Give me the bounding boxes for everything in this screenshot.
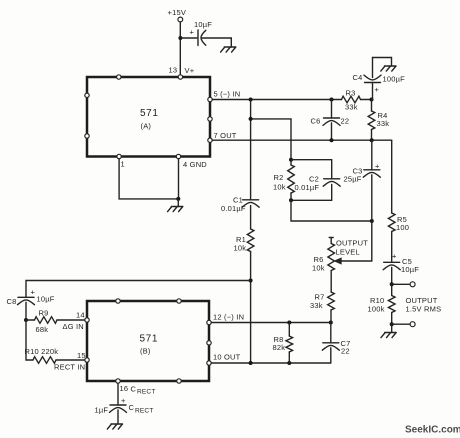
- svg-text:V+: V+: [185, 66, 195, 75]
- resistor R10 220k: [25, 347, 85, 363]
- svg-text:C: C: [131, 385, 137, 394]
- wire to output terminal 2: [392, 323, 410, 325]
- wire +15V to pin 13 V+: [179, 22, 181, 77]
- resistor R3 33k: [342, 89, 372, 112]
- pin 15 label: [54, 351, 86, 372]
- node junction R7 bottom / C7 top: [329, 321, 333, 325]
- svg-text:10µF: 10µF: [194, 20, 212, 29]
- svg-text:10µF: 10µF: [401, 265, 419, 274]
- node junction IN line at C1 branch: [249, 98, 253, 102]
- svg-text:OUTPUT: OUTPUT: [336, 239, 368, 248]
- node junction R2 top: [289, 158, 293, 162]
- ground G4 below R10: [381, 333, 396, 338]
- pin bubble box B top 1: [116, 299, 120, 303]
- pin bubble box B pin 15: [85, 358, 89, 362]
- potentiometer R6 10k: [312, 238, 335, 273]
- pin bubble box A pin 7: [208, 138, 212, 142]
- svg-text:571: 571: [140, 334, 159, 345]
- wire R2C2 bottom rail: [291, 185, 332, 201]
- svg-text:10 OUT: 10 OUT: [213, 353, 241, 362]
- capacitor C8 10uF: [7, 288, 55, 321]
- svg-text:C: C: [129, 403, 135, 412]
- resistor R2 10k: [273, 160, 294, 201]
- svg-text:13: 13: [169, 66, 178, 75]
- node junction R1 line with feedback line: [249, 279, 253, 283]
- resistor R4 33k: [368, 100, 389, 141]
- svg-text:0.01µF: 0.01µF: [221, 204, 246, 213]
- OUTPUT LEVEL label: [336, 239, 369, 257]
- wire R2 bottom to C3 bottom rail: [291, 200, 372, 221]
- svg-text:C4: C4: [353, 73, 363, 82]
- resistor R9 68k: [26, 309, 85, 335]
- wire pin 10 line: [211, 362, 331, 364]
- svg-text:RECT IN: RECT IN: [54, 363, 85, 372]
- resistor R8 82k: [273, 323, 293, 364]
- svg-text:R3: R3: [346, 89, 356, 98]
- pin bubble box A left 2: [85, 134, 89, 138]
- wire R5 bottom to C5: [391, 232, 393, 263]
- resistor R5 100: [388, 213, 409, 232]
- wire (-)IN line from pin 5: [212, 99, 341, 101]
- wiper arrow of R6: [335, 258, 341, 263]
- capacitor C3 25uF: [344, 140, 381, 221]
- pin bubble box A pin 5: [208, 97, 212, 101]
- wire bypass capacitor to ground: [202, 38, 231, 47]
- svg-text:22: 22: [341, 117, 350, 126]
- op-amp U2 571 (B) body: [87, 301, 209, 381]
- svg-text:33k: 33k: [345, 103, 358, 112]
- node junction IN-R2 branch: [249, 117, 253, 121]
- capacitor 10uF bypass: [190, 20, 213, 46]
- svg-text:R9: R9: [39, 309, 49, 318]
- node junction R4 bottom on OUT line: [370, 138, 374, 142]
- wire junction to bypass capacitor: [180, 37, 197, 39]
- ground G2 above C4: [381, 66, 396, 71]
- svg-text:16: 16: [120, 384, 129, 393]
- capacitor C1 0.01uF: [221, 196, 259, 214]
- svg-text:10k: 10k: [234, 244, 247, 253]
- wire OUT line from pin 7: [212, 139, 392, 141]
- node junction R8 bottom: [287, 361, 291, 365]
- svg-text:12 (−) IN: 12 (−) IN: [213, 313, 244, 322]
- pin bubble box B right mid: [207, 341, 211, 345]
- svg-text:(B): (B): [140, 347, 151, 356]
- wire feedback line C8 to R1 chain: [26, 281, 251, 298]
- node +15V terminal: [168, 8, 187, 22]
- wire pin 12 line: [211, 322, 331, 324]
- pin 16 label: [120, 384, 156, 396]
- svg-text:R10 220k: R10 220k: [25, 347, 59, 356]
- wire C4 top to ground: [373, 58, 392, 67]
- svg-text:RECT: RECT: [137, 389, 156, 396]
- wire wiper to C3 bottom rail: [340, 221, 372, 261]
- node junction C5 bottom output: [390, 282, 394, 286]
- wire pin 1 loop to ground: [119, 159, 178, 199]
- pin bubble box A left 1: [85, 93, 89, 97]
- node output terminal 2: [410, 322, 415, 327]
- svg-text:1µF: 1µF: [95, 406, 109, 415]
- svg-text:33k: 33k: [377, 119, 390, 128]
- node junction R2 bottom: [289, 198, 293, 202]
- svg-text:+15V: +15V: [168, 8, 187, 17]
- node output terminal 1: [410, 282, 415, 287]
- node junction at V+ rail: [178, 36, 182, 40]
- svg-text:10k: 10k: [312, 264, 325, 273]
- svg-text:RECT: RECT: [135, 408, 154, 415]
- wire OUT line right branch down to R5: [391, 140, 393, 213]
- svg-text:C8: C8: [7, 297, 17, 306]
- svg-text:+: +: [392, 252, 397, 261]
- svg-text:571: 571: [140, 108, 159, 119]
- svg-text:ΔG IN: ΔG IN: [63, 322, 84, 331]
- svg-text:100µF: 100µF: [383, 75, 406, 84]
- pin bubble box A pin 13: [178, 75, 182, 79]
- wire R6 bottom to R7: [330, 271, 332, 293]
- svg-text:14: 14: [76, 311, 85, 320]
- svg-text:25µF: 25µF: [344, 175, 362, 184]
- pin bubble box B pin 12: [207, 320, 211, 324]
- svg-text:+: +: [375, 162, 380, 171]
- pin bubble box B pin 10: [207, 361, 211, 365]
- pin bubble box A pin 4: [176, 154, 180, 158]
- pin bubble box A pin 1: [117, 154, 121, 158]
- node junction C6 bottom on OUT line: [330, 138, 334, 142]
- svg-text:0.01µF: 0.01µF: [295, 183, 320, 192]
- wire pin 4 down: [178, 159, 180, 199]
- wire junction to ground G5: [177, 199, 179, 207]
- OUTPUT 15V RMS label: [406, 296, 442, 314]
- resistor R7 33k: [310, 292, 334, 323]
- svg-text:+: +: [190, 28, 195, 37]
- node junction R3-C4-R4: [370, 98, 374, 102]
- resistor R1 10k: [234, 229, 254, 253]
- svg-text:1.5V RMS: 1.5V RMS: [406, 305, 442, 314]
- svg-text:+: +: [375, 85, 380, 94]
- capacitor C4 100uF: [353, 58, 406, 100]
- pin bubble box B bottom 2: [177, 379, 181, 383]
- ground G3 below CRECT: [107, 424, 122, 429]
- pin bubble box A right mid: [208, 117, 212, 121]
- wire C8 node down to R10: [26, 320, 33, 360]
- svg-text:68k: 68k: [36, 325, 49, 334]
- svg-text:100: 100: [396, 223, 409, 232]
- node junction R10 bottom: [390, 322, 394, 326]
- wire to output terminal 1: [392, 283, 410, 285]
- capacitor C6 22: [311, 100, 350, 141]
- wire pin 16 to CRECT: [117, 383, 119, 405]
- node junction R8 top: [287, 321, 291, 325]
- svg-text:+: +: [31, 288, 36, 297]
- pin 14 label: [63, 311, 85, 332]
- wire C1-R1 vertical chain: [250, 100, 252, 364]
- svg-text:15: 15: [77, 351, 86, 360]
- svg-text:LEVEL: LEVEL: [336, 248, 360, 257]
- svg-text:33k: 33k: [310, 301, 323, 310]
- ground G1 top: [221, 47, 236, 52]
- node junction under pin 4: [176, 197, 180, 201]
- svg-text:10k: 10k: [273, 183, 286, 192]
- svg-text:7 OUT: 7 OUT: [214, 131, 237, 140]
- capacitor C2 0.01uF: [295, 175, 341, 193]
- pin bubble box B top 2: [177, 299, 181, 303]
- svg-text:82k: 82k: [273, 343, 286, 352]
- svg-text:5 (−) IN: 5 (−) IN: [214, 90, 241, 99]
- svg-text:+: +: [121, 396, 126, 405]
- capacitor C7 22: [322, 323, 350, 364]
- svg-text:100k: 100k: [368, 305, 385, 314]
- wire IN branch to R2 top: [251, 119, 291, 160]
- node junction R1 chain to 10 OUT: [249, 361, 253, 365]
- svg-text:C6: C6: [311, 117, 321, 126]
- svg-text:R2: R2: [274, 173, 284, 182]
- resistor R10 100k: [368, 284, 396, 324]
- svg-text:1: 1: [121, 160, 125, 169]
- wire R10 bottom to ground: [391, 324, 393, 332]
- capacitor CRECT 1uF: [95, 396, 154, 424]
- svg-text:SeekIC.com: SeekIC.com: [405, 425, 460, 436]
- pin 13 label: [169, 66, 195, 76]
- ground G5 below box A: [168, 207, 183, 212]
- op-amp U1 571 (A) body: [87, 77, 210, 157]
- node junction C3 bottom / wiper rail: [370, 219, 374, 223]
- wire R2C2 top rail: [291, 160, 332, 179]
- pin bubble box A top 1: [117, 75, 121, 79]
- pin bubble box B pin 16: [116, 379, 120, 383]
- svg-text:22: 22: [341, 347, 350, 356]
- svg-text:4 GND: 4 GND: [183, 160, 207, 169]
- svg-text:(A): (A): [141, 122, 152, 131]
- capacitor C5 10uF: [383, 252, 419, 285]
- node junction IN line at C6 branch: [330, 98, 334, 102]
- svg-text:10µF: 10µF: [37, 295, 55, 304]
- pin bubble box B pin 14: [85, 318, 89, 322]
- node junction C8-R9: [24, 318, 28, 322]
